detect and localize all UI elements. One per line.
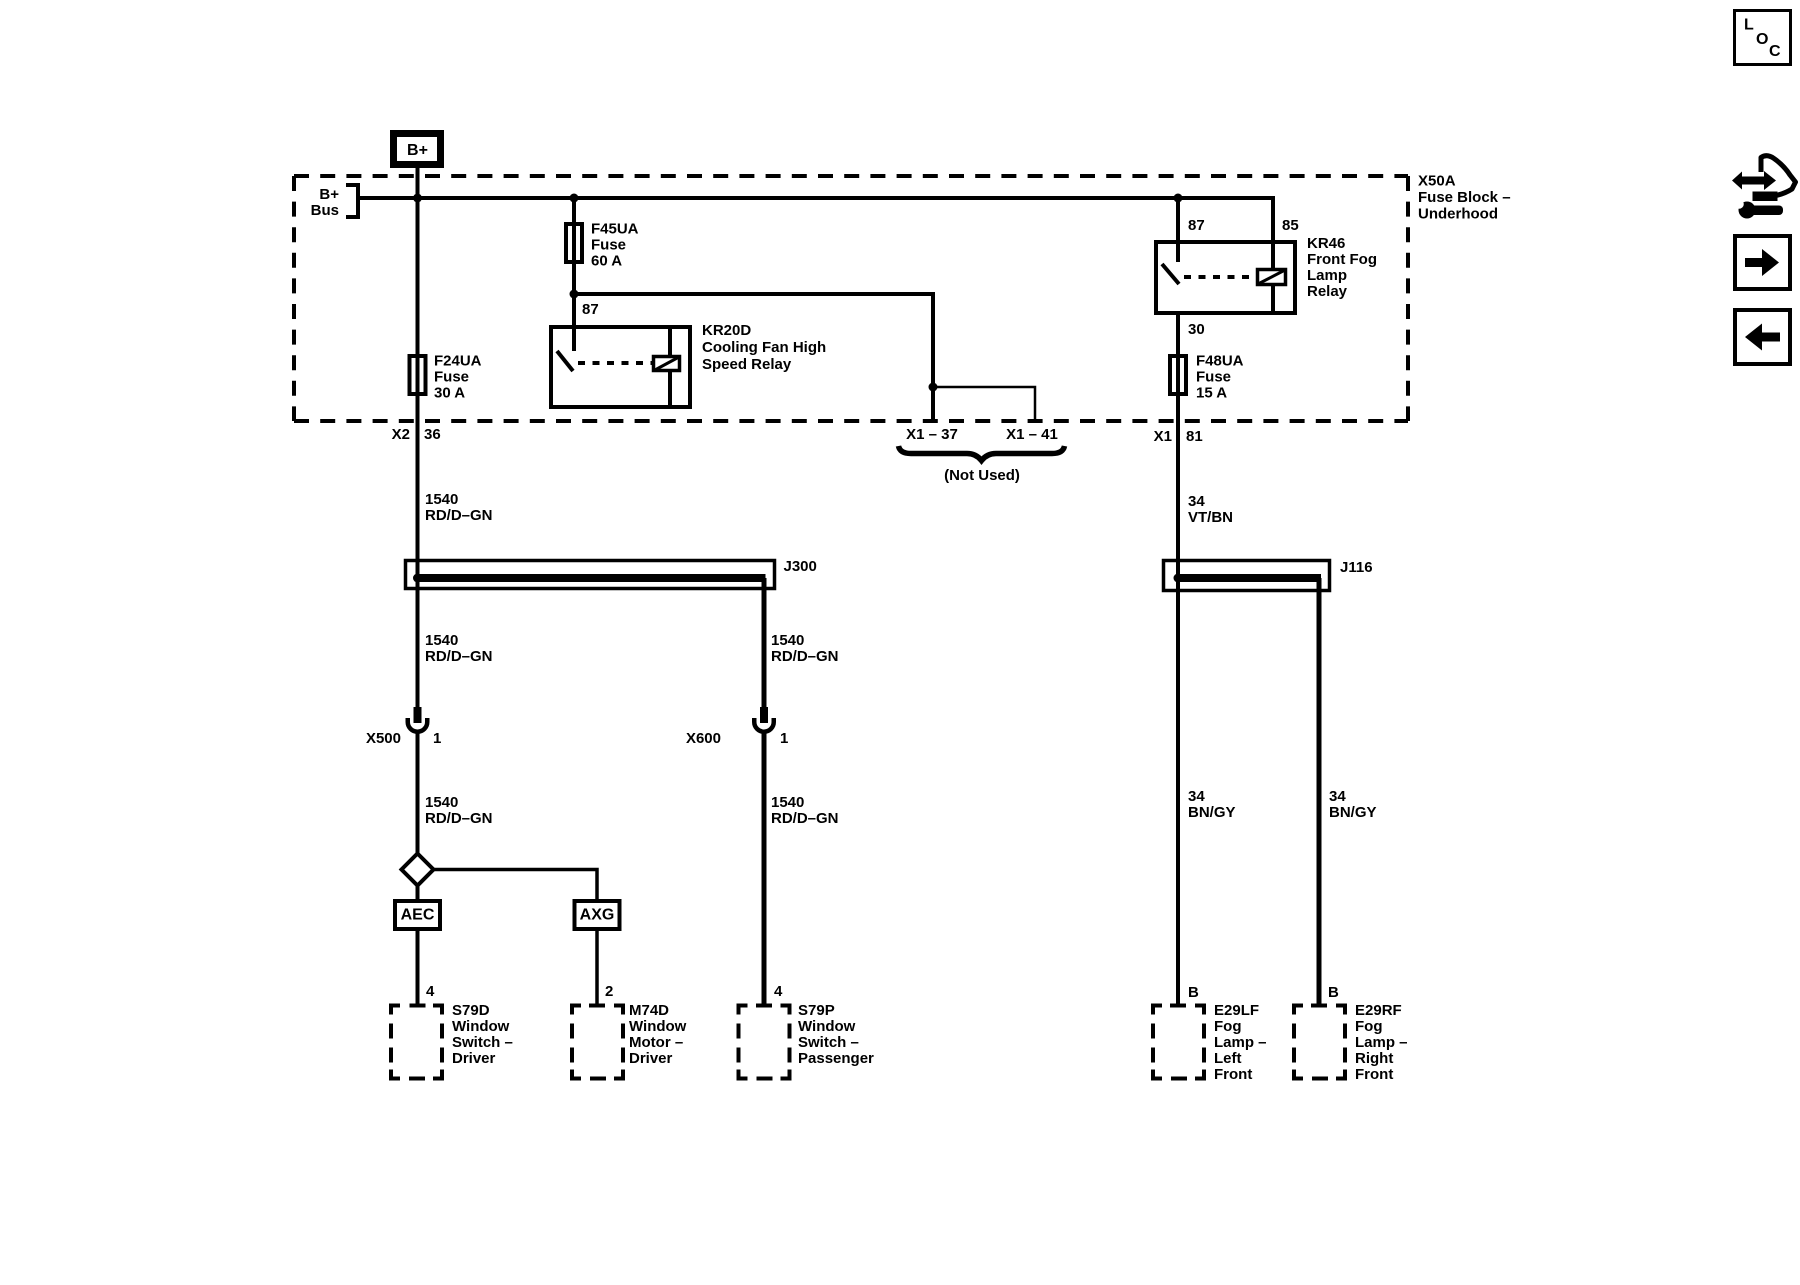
svg-text:Lamp –: Lamp – — [1214, 1034, 1267, 1051]
svg-text:AXG: AXG — [580, 907, 615, 924]
wire J300 right drop to S79P — [762, 578, 767, 1007]
svg-text:O: O — [1756, 31, 1768, 48]
svg-text:34: 34 — [1188, 788, 1205, 805]
label 1540 RD/D-GN mid right — [771, 632, 839, 665]
relay KR20D coil — [654, 327, 680, 407]
svg-text:F45UA: F45UA — [591, 220, 639, 237]
svg-text:BN/GY: BN/GY — [1188, 804, 1236, 821]
wire J116 right drop to E29RF — [1317, 578, 1322, 1007]
svg-text:34: 34 — [1188, 493, 1205, 510]
component M74D box — [570, 1006, 625, 1079]
svg-text:BN/GY: BN/GY — [1329, 804, 1377, 821]
component E29LF box — [1151, 1006, 1206, 1079]
svg-text:Underhood: Underhood — [1418, 205, 1498, 222]
label J116 — [1340, 559, 1373, 576]
svg-text:S79D: S79D — [452, 1002, 490, 1019]
svg-text:1540: 1540 — [425, 794, 458, 811]
label X50A Fuse Block Underhood — [1418, 172, 1511, 222]
inline connector X600 pin 1 — [686, 707, 788, 747]
label 1540 RD/D-GN mid left — [425, 632, 493, 665]
wire KR46 pin 85 from bus — [1271, 196, 1275, 313]
label E29LF Fog Lamp Left Front — [1214, 1002, 1267, 1083]
label 34 BN/GY left — [1188, 788, 1236, 821]
svg-text:RD/D–GN: RD/D–GN — [425, 810, 493, 827]
wire KR46 pin 30 to E29LF — [1176, 315, 1180, 1007]
svg-text:1: 1 — [780, 730, 788, 747]
wire KR46 pin 87 stub — [1176, 198, 1180, 262]
svg-text:Switch –: Switch – — [452, 1034, 513, 1051]
battery B+ terminal box — [390, 130, 444, 168]
junction dot bus/KR46 — [1174, 194, 1183, 203]
svg-text:Driver: Driver — [452, 1050, 496, 1067]
svg-text:X2: X2 — [392, 426, 410, 443]
svg-text:C: C — [1769, 43, 1781, 60]
component E29RF box — [1292, 1006, 1347, 1079]
fuse block X50A dashed border — [294, 176, 1408, 421]
junction block J116 — [1164, 561, 1330, 591]
svg-text:1540: 1540 — [425, 491, 458, 508]
svg-text:E29LF: E29LF — [1214, 1002, 1259, 1019]
junction dot J300 — [413, 574, 422, 583]
pin label 4 S79D — [426, 983, 435, 1000]
label S79P Window Switch Passenger — [798, 1002, 874, 1067]
label 1540 RD/D-GN upper left — [425, 491, 493, 524]
brace not-used group — [899, 446, 1065, 461]
svg-text:VT/BN: VT/BN — [1188, 509, 1233, 526]
label 1540 RD/D-GN lower right — [771, 794, 839, 827]
svg-text:KR46: KR46 — [1307, 235, 1345, 252]
svg-text:81: 81 — [1186, 428, 1203, 445]
label M74D Window Motor Driver — [629, 1002, 687, 1067]
svg-text:87: 87 — [1188, 217, 1205, 234]
svg-text:Lamp –: Lamp – — [1355, 1034, 1408, 1051]
svg-text:4: 4 — [426, 983, 435, 1000]
svg-text:Fuse: Fuse — [434, 368, 469, 385]
relay KR20D box — [551, 327, 690, 407]
connector label X1-37 — [906, 426, 958, 443]
svg-text:Window: Window — [629, 1018, 687, 1035]
svg-text:34: 34 — [1329, 788, 1346, 805]
junction dot bus/F45UA — [570, 194, 579, 203]
svg-text:Switch –: Switch – — [798, 1034, 859, 1051]
icon LOC box — [1735, 11, 1791, 65]
svg-text:36: 36 — [424, 426, 441, 443]
svg-text:Fuse Block –: Fuse Block – — [1418, 189, 1511, 206]
terminal code box AXG — [575, 901, 620, 929]
svg-text:4: 4 — [774, 983, 783, 1000]
svg-text:X1: X1 — [1154, 428, 1172, 445]
pin label B E29LF — [1188, 984, 1199, 1001]
fuse F48UA — [1170, 352, 1244, 401]
junction dot bus/left wire — [413, 194, 422, 203]
svg-text:1540: 1540 — [771, 794, 804, 811]
svg-text:15 A: 15 A — [1196, 384, 1227, 401]
svg-text:Fuse: Fuse — [1196, 368, 1231, 385]
wire X1-41 stub (not used) — [933, 387, 1035, 421]
svg-text:S79P: S79P — [798, 1002, 835, 1019]
svg-text:X600: X600 — [686, 730, 721, 747]
svg-text:X1 – 37: X1 – 37 — [906, 426, 958, 443]
pin label 2 M74D — [605, 983, 613, 1000]
svg-text:Cooling Fan High: Cooling Fan High — [702, 339, 826, 356]
relay KR20D pin 87 label — [582, 301, 599, 318]
relay KR46 box — [1156, 242, 1295, 313]
svg-text:Left: Left — [1214, 1050, 1242, 1067]
svg-text:RD/D–GN: RD/D–GN — [771, 648, 839, 665]
label 34 VT/BN — [1188, 493, 1233, 526]
icon service information (hand/arrow/wrench) — [1732, 156, 1796, 219]
wire F45UA branch — [572, 198, 933, 421]
pin label B E29RF — [1328, 984, 1339, 1001]
fuse F45UA — [566, 220, 639, 269]
svg-text:Front: Front — [1214, 1066, 1252, 1083]
inline connector X500 pin 1 — [366, 707, 441, 747]
svg-text:Passenger: Passenger — [798, 1050, 874, 1067]
label (Not Used) — [944, 467, 1020, 484]
svg-text:1540: 1540 — [771, 632, 804, 649]
svg-text:1: 1 — [433, 730, 441, 747]
label 34 BN/GY right — [1329, 788, 1377, 821]
junction block J300 — [406, 561, 775, 589]
svg-text:J116: J116 — [1340, 559, 1373, 576]
svg-text:M74D: M74D — [629, 1002, 669, 1019]
junction dot F45UA out — [570, 290, 579, 299]
svg-text:RD/D–GN: RD/D–GN — [771, 810, 839, 827]
svg-text:B: B — [1328, 984, 1339, 1001]
svg-text:Front Fog: Front Fog — [1307, 251, 1377, 268]
svg-text:Front: Front — [1355, 1066, 1393, 1083]
fuse F24UA — [410, 352, 482, 401]
relay KR46 pin labels 87 85 30 — [1188, 217, 1299, 338]
component S79P box — [737, 1006, 792, 1079]
svg-text:J300: J300 — [784, 558, 817, 575]
junction dot J116 — [1174, 574, 1183, 583]
svg-text:KR20D: KR20D — [702, 322, 751, 339]
svg-text:30: 30 — [1188, 321, 1205, 338]
svg-text:(Not Used): (Not Used) — [944, 467, 1020, 484]
label S79D Window Switch Driver — [452, 1002, 513, 1067]
relay KR46 switch arm — [1162, 264, 1179, 284]
svg-text:2: 2 — [605, 983, 613, 1000]
relay KR20D switch arm — [557, 351, 573, 371]
svg-text:Motor –: Motor – — [629, 1034, 683, 1051]
relay KR46 coil — [1258, 270, 1286, 285]
relay KR46 contact dashed link — [1184, 275, 1256, 279]
wire AEC to S79D — [416, 931, 420, 1007]
connector label X1-41 — [1006, 426, 1058, 443]
svg-text:Right: Right — [1355, 1050, 1393, 1067]
relay KR20D contact dashed link — [578, 361, 652, 365]
svg-text:L: L — [1744, 17, 1754, 34]
svg-text:85: 85 — [1282, 217, 1299, 234]
svg-text:X500: X500 — [366, 730, 401, 747]
svg-text:Window: Window — [452, 1018, 510, 1035]
terminal code box AEC — [395, 901, 440, 929]
svg-text:B+: B+ — [319, 186, 339, 203]
svg-text:87: 87 — [582, 301, 599, 318]
junction dot X1-37/X1-41 — [929, 383, 938, 392]
wire AXG to M74D — [595, 929, 599, 1007]
wire B+ bus horizontal — [358, 196, 1273, 200]
svg-text:Bus: Bus — [311, 202, 339, 219]
label J300 — [784, 558, 817, 575]
svg-text:Fog: Fog — [1214, 1018, 1242, 1035]
connector label X1 81 — [1154, 428, 1203, 445]
splice diamond — [402, 854, 434, 886]
svg-text:F48UA: F48UA — [1196, 352, 1244, 369]
svg-text:X1 – 41: X1 – 41 — [1006, 426, 1058, 443]
svg-text:AEC: AEC — [401, 907, 435, 924]
svg-text:Speed Relay: Speed Relay — [702, 356, 792, 373]
svg-text:60 A: 60 A — [591, 252, 622, 269]
label KR20D Cooling Fan High Speed Relay — [702, 322, 826, 373]
connector label X2 36 — [392, 426, 441, 443]
label E29RF Fog Lamp Right Front — [1355, 1002, 1408, 1083]
svg-text:Fuse: Fuse — [591, 236, 626, 253]
svg-text:1540: 1540 — [425, 632, 458, 649]
icon arrow right box — [1735, 236, 1790, 289]
svg-text:F24UA: F24UA — [434, 352, 482, 369]
svg-text:E29RF: E29RF — [1355, 1002, 1402, 1019]
svg-text:Relay: Relay — [1307, 283, 1348, 300]
svg-text:Lamp: Lamp — [1307, 267, 1347, 284]
svg-text:Driver: Driver — [629, 1050, 673, 1067]
wire splice to AXG — [433, 870, 597, 902]
svg-text:B: B — [1188, 984, 1199, 1001]
label KR46 Front Fog Lamp Relay — [1307, 235, 1377, 300]
svg-text:RD/D–GN: RD/D–GN — [425, 507, 493, 524]
wire left branch vertical (B+ to S79D) — [416, 166, 420, 1007]
pin label 4 S79P — [774, 983, 783, 1000]
svg-text:Window: Window — [798, 1018, 856, 1035]
icon arrow left box — [1735, 310, 1790, 364]
svg-text:X50A: X50A — [1418, 172, 1456, 189]
B+ Bus tap bracket — [311, 185, 358, 219]
svg-text:RD/D–GN: RD/D–GN — [425, 648, 493, 665]
svg-text:30 A: 30 A — [434, 384, 465, 401]
label 1540 RD/D-GN lower left — [425, 794, 493, 827]
svg-text:Fog: Fog — [1355, 1018, 1383, 1035]
component S79D box — [389, 1006, 444, 1079]
svg-text:B+: B+ — [407, 142, 428, 159]
